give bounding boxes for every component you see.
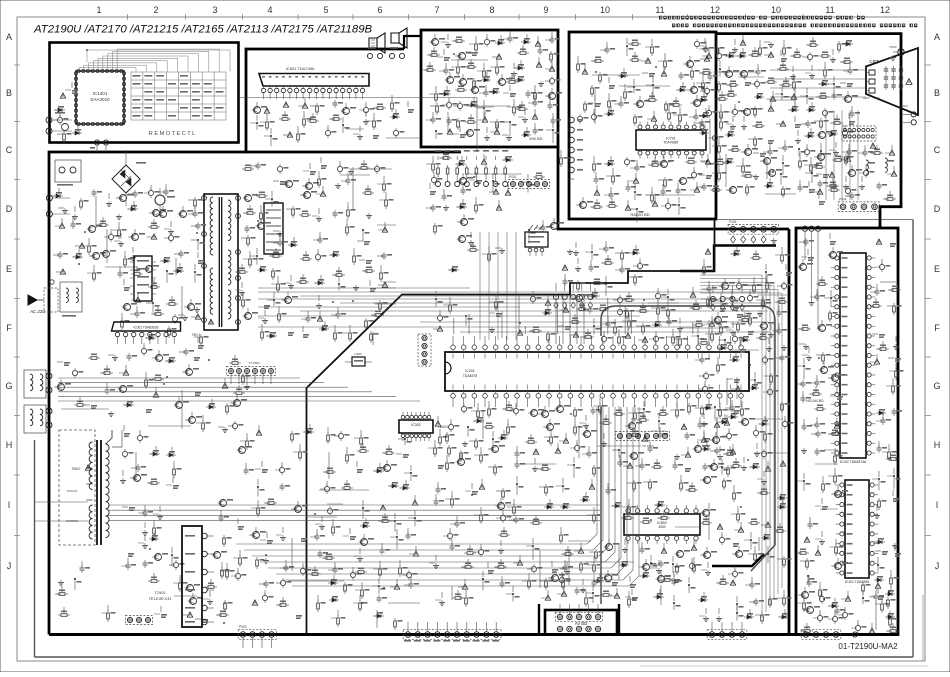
svg-text:D: D xyxy=(6,204,13,214)
bus bends into IC top pins xyxy=(454,294,693,334)
radio circuit components xyxy=(576,38,718,222)
AV jack components xyxy=(541,555,700,605)
degauss pins right edge xyxy=(903,112,916,125)
bridge rectifier xyxy=(112,150,146,206)
svg-text:1: 1 xyxy=(96,5,101,15)
svg-text:01-T2190U-MA2: 01-T2190U-MA2 xyxy=(838,642,898,651)
svg-text:B: B xyxy=(6,88,12,98)
svg-text:4053: 4053 xyxy=(658,525,665,529)
svg-text:TO P802: TO P802 xyxy=(248,361,260,365)
power secondary components xyxy=(235,157,396,345)
bottom connector P904 xyxy=(707,622,747,639)
heater coils L501 L502 xyxy=(866,158,894,174)
connector pins on nicam top edge xyxy=(802,226,820,330)
svg-text:C: C xyxy=(6,145,13,155)
rounded sub-board boundary xyxy=(601,306,775,604)
connector P802 on left edge xyxy=(24,370,52,398)
connector P002 xyxy=(508,175,549,189)
svg-text:NICAM BD: NICAM BD xyxy=(806,399,824,403)
svg-text:FOCUS: FOCUS xyxy=(67,489,78,493)
CRT drive wires xyxy=(770,70,866,200)
svg-text:10: 10 xyxy=(771,5,781,15)
svg-text:C: C xyxy=(934,145,941,155)
power primary components xyxy=(52,184,206,283)
svg-text:F: F xyxy=(6,323,12,333)
svg-text:P701: P701 xyxy=(567,177,574,181)
audio section components xyxy=(250,95,420,146)
components below jungle IC xyxy=(428,398,760,478)
switch IC802 4053 xyxy=(624,505,700,544)
wire from remote board to main xyxy=(239,98,478,153)
jungle IC201 TDA8375 body xyxy=(445,336,749,407)
svg-text:12: 12 xyxy=(710,5,720,15)
thick board boundary staircase xyxy=(307,220,715,633)
svg-text:T1501: T1501 xyxy=(154,590,165,595)
anode cap P500 xyxy=(889,45,904,61)
remote keypad matrix wires xyxy=(79,49,230,71)
RGB section meander xyxy=(680,246,776,272)
nicam panel bottom components xyxy=(797,575,899,633)
svg-text:J: J xyxy=(935,561,940,571)
SAW filter Z201 xyxy=(525,225,548,256)
bottom connector main P701 xyxy=(403,622,501,642)
remote control board box xyxy=(50,43,239,143)
svg-text:11: 11 xyxy=(655,5,664,15)
chinese safety notice line 1 xyxy=(659,16,865,20)
svg-text:IC201: IC201 xyxy=(465,369,475,373)
radio board box xyxy=(569,32,716,219)
audio amp IC601 TDA7496 xyxy=(259,66,369,99)
bottom connector P905 xyxy=(801,630,857,640)
speaker right xyxy=(391,28,407,48)
wires to yoke connector xyxy=(556,295,584,344)
RGB output stage components xyxy=(695,246,793,624)
nicam panel components right column xyxy=(870,239,904,628)
section label RADIO BD xyxy=(630,212,649,217)
connector P801 on left edge xyxy=(46,112,72,134)
connector P504 bottom of CRT section xyxy=(838,197,879,211)
connector P401 on main top edge xyxy=(728,220,779,244)
audio headphone jack area xyxy=(426,150,569,243)
chinese safety notice line 2 xyxy=(672,24,917,28)
components above jungle IC xyxy=(433,287,774,348)
RGB driver transistors cluster xyxy=(695,35,862,198)
svg-text:EW BD: EW BD xyxy=(529,136,542,141)
yoke connector P403 xyxy=(710,285,744,310)
power control components xyxy=(121,279,209,356)
svg-text:J: J xyxy=(7,561,12,571)
svg-text:R E M O T E C T L: R E M O T E C T L xyxy=(149,131,196,137)
svg-text:4: 4 xyxy=(267,5,272,15)
remote receiver components xyxy=(53,82,82,143)
standby power area xyxy=(54,350,251,433)
connector P803 on left edge xyxy=(24,405,52,433)
AC mains input plug xyxy=(28,288,58,314)
degauss coil connector xyxy=(55,160,81,186)
grid row letters xyxy=(5,32,940,571)
svg-text:P002: P002 xyxy=(509,175,517,179)
drawing number 01-T2190U-MA2 xyxy=(838,642,898,651)
left supply bus xyxy=(58,378,420,401)
bottom connector P903 xyxy=(238,625,276,648)
svg-text:780.1: 780.1 xyxy=(192,333,201,337)
bus right of jungle into nicam xyxy=(700,275,782,618)
horizontal deflection components xyxy=(55,558,235,623)
connector TO P802 xyxy=(227,361,276,390)
grid column numbers xyxy=(96,5,890,20)
svg-text:I: I xyxy=(936,500,939,510)
bottom connector P902 double row xyxy=(555,604,602,632)
svg-text:8: 8 xyxy=(489,5,494,15)
svg-text:LM324: LM324 xyxy=(438,425,448,429)
svg-text:11: 11 xyxy=(825,5,834,15)
radio board edge pins xyxy=(567,117,583,181)
bottom middle components xyxy=(429,475,702,610)
regulator IC808 7805 xyxy=(345,352,372,366)
svg-text:F: F xyxy=(934,323,940,333)
connector P301 vertical pins xyxy=(418,334,431,366)
CRT panel feed resistor row B101 xyxy=(435,150,508,187)
svg-text:IC302: IC302 xyxy=(411,423,421,427)
main filter capacitor xyxy=(155,188,175,214)
section label NICAM BD xyxy=(806,399,824,403)
remote key function table xyxy=(131,72,226,120)
title AT2190U/AT2170/AT21215/AT2165/AT2113/AT2175/AT21189B xyxy=(33,24,373,36)
tuner T1501 TELE4R-011 xyxy=(149,526,214,627)
svg-text:G: G xyxy=(933,381,940,391)
section label EW BD xyxy=(529,136,542,141)
switching transformer T801 xyxy=(192,194,241,337)
flyback surrounding components xyxy=(120,425,182,567)
sound IC301 TDA8361 bar xyxy=(112,322,181,344)
connector P806 on left edge xyxy=(46,195,70,217)
svg-text:G: G xyxy=(5,381,12,391)
mains filter and fuse xyxy=(50,280,82,317)
svg-text:AT2190U /AT2170 /AT21215 /AT21: AT2190U /AT2170 /AT21215 /AT2165 /AT2113… xyxy=(33,24,373,36)
connector TO P701 mid xyxy=(615,431,669,448)
flyback transformer T402 xyxy=(35,430,123,545)
section label REMOTE CTL xyxy=(149,131,196,137)
main board outline xyxy=(49,36,898,635)
speaker connector pins xyxy=(367,47,404,59)
radio IC TDA7088T xyxy=(636,122,706,159)
svg-text:A: A xyxy=(934,32,940,42)
vertical bus from radio area down xyxy=(480,232,516,340)
tuner area components xyxy=(212,495,422,630)
SMPS control IC801 vertical xyxy=(130,256,156,301)
svg-text:6: 6 xyxy=(377,5,382,15)
CRT socket connector xyxy=(842,126,876,148)
svg-text:E: E xyxy=(6,264,12,274)
svg-text:SAA3010: SAA3010 xyxy=(90,97,110,102)
svg-text:RADIO BD: RADIO BD xyxy=(630,212,649,217)
nicam IC101 TDA8395 xyxy=(836,480,878,584)
remote bottom pins xyxy=(90,140,109,152)
svg-text:AV BD: AV BD xyxy=(575,621,587,626)
svg-text:H: H xyxy=(934,440,941,450)
nicam panel components left column xyxy=(796,233,848,624)
svg-text:3: 3 xyxy=(212,5,217,15)
remote IC1401 SAA3010 xyxy=(74,69,125,125)
lower left bus xyxy=(108,505,600,521)
svg-text:IC601 TDA7496: IC601 TDA7496 xyxy=(286,66,315,71)
svg-text:IC808: IC808 xyxy=(355,352,362,356)
svg-text:12: 12 xyxy=(880,5,890,15)
svg-text:IC301 TDA8361B: IC301 TDA8361B xyxy=(134,326,159,330)
secondary rectifier block D803 xyxy=(264,203,283,254)
svg-text:2: 2 xyxy=(153,5,158,15)
svg-text:E: E xyxy=(934,264,940,274)
nicam IC102 TDA8374A xyxy=(831,253,875,464)
EW correction circuit components xyxy=(423,31,562,143)
svg-text:10: 10 xyxy=(600,5,610,15)
vertical deflection components xyxy=(237,424,418,497)
svg-text:D: D xyxy=(934,204,941,214)
svg-text:H: H xyxy=(6,440,13,450)
EW correction board box xyxy=(421,30,558,147)
speaker left xyxy=(369,33,385,53)
bus below jungle to bottom connectors xyxy=(236,407,639,586)
speaker connector bottom left xyxy=(125,615,152,624)
nicam board box xyxy=(796,228,898,635)
bus into jungle IC top xyxy=(258,288,768,332)
svg-text:TDA8375: TDA8375 xyxy=(463,374,477,378)
CRT section top bus and right edge xyxy=(716,34,901,228)
svg-text:TDA7088T: TDA7088T xyxy=(663,141,678,145)
svg-text:7: 7 xyxy=(434,5,439,15)
svg-text:I: I xyxy=(8,500,11,510)
svg-text:IC1401: IC1401 xyxy=(93,91,108,96)
AV board box xyxy=(539,554,764,635)
IF and video components xyxy=(448,232,648,296)
IC302 LM324 xyxy=(399,412,448,441)
svg-text:5: 5 xyxy=(323,5,328,15)
svg-text:AC 220: AC 220 xyxy=(29,309,45,314)
svg-text:A: A xyxy=(6,32,12,42)
yoke connector P402 xyxy=(553,283,593,308)
svg-text:FA02: FA02 xyxy=(72,467,82,471)
CRT socket and tube xyxy=(863,48,918,115)
svg-text:9: 9 xyxy=(543,5,548,15)
svg-text:TELE4R-011: TELE4R-011 xyxy=(149,596,172,601)
svg-text:B: B xyxy=(934,88,940,98)
CRT board lower components xyxy=(812,145,897,205)
